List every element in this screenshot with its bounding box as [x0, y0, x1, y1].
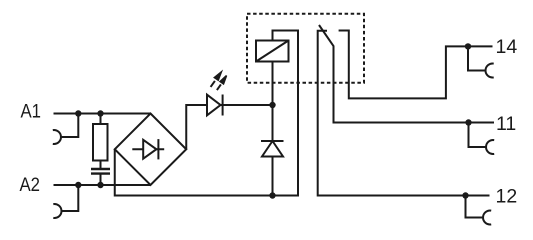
junction on 14 wire (clamp branch) [465, 43, 471, 49]
resistor R1 [93, 124, 108, 161]
clamp contact terminal 11 [486, 140, 494, 154]
LED V1 triangle [207, 95, 221, 116]
wire A2 horizontal to bridge bottom corner [54, 184, 151, 186]
dashed relay enclosure box [247, 14, 364, 83]
wire A1 junction down-left to clamp [61, 114, 78, 138]
wire A2 junction down-left to clamp [62, 185, 79, 211]
wire 14 junction down-right to clamp [468, 46, 486, 70]
clamp contact terminal A2 [53, 204, 61, 218]
LED light arrow 1 [211, 72, 222, 87]
svg-text:14: 14 [496, 36, 518, 58]
bridge rectifier G1 diamond [115, 114, 187, 186]
relay contact movable arm and common pole down to terminal 11 wire [319, 25, 494, 123]
relay contact fixed NO terminal with hook, down and over to terminal 14 wire [339, 31, 493, 99]
relay contact fixed NC terminal with hook, down to terminal 12 wire [318, 31, 490, 196]
wire capacitor bottom lead [100, 174, 102, 185]
svg-text:A1: A1 [21, 101, 42, 123]
wire resistor top lead [100, 114, 102, 125]
LED light arrow 2 [217, 76, 227, 91]
relay coil K1 [256, 41, 289, 62]
clamp contact terminal A1 [53, 130, 61, 144]
junction node: LED wire / coil bottom / freewheel diode top [269, 102, 275, 108]
wire DC-plus: bridge right corner up to LED wire [186, 105, 272, 149]
wire coil bottom lead down to node [272, 62, 274, 106]
capacitor C1 [91, 169, 110, 174]
freewheeling diode V2 cathode bar [261, 140, 284, 142]
clamp contact terminal 14 [486, 64, 494, 78]
junction node: freewheel diode bottom / DC-minus line [269, 192, 275, 198]
wire resistor bottom to capacitor [100, 161, 102, 170]
bridge rectifier internal diode axis [132, 148, 164, 150]
junction on 11 wire (clamp branch) [465, 119, 471, 125]
bridge rectifier internal diode triangle [143, 140, 156, 159]
svg-text:12: 12 [496, 186, 518, 208]
wire 11 junction down-right to clamp [469, 123, 487, 148]
wire freewheel diode branch [272, 105, 274, 196]
junction on A1 wire (clamp branch) [75, 110, 81, 116]
wire 12 junction down-right to clamp [466, 196, 484, 218]
svg-text:A2: A2 [20, 174, 41, 196]
junction on 12 wire (clamp branch) [462, 192, 468, 198]
wire DC-minus: bridge left corner down, right under bridge, up to coil top lead [115, 31, 298, 196]
freewheeling diode V2 triangle [262, 141, 283, 157]
wire A1 horizontal to bridge top corner [54, 113, 151, 115]
clamp contact terminal 12 [483, 211, 491, 225]
junction on A2 wire (clamp branch) [75, 182, 81, 188]
bridge rectifier internal diode cathode bar [157, 139, 159, 159]
svg-text:11: 11 [496, 113, 516, 135]
junction on A2 wire (capacitor branch) [97, 182, 103, 188]
junction on A1 wire (resistor branch) [97, 110, 103, 116]
LED V1 cathode bar [222, 95, 224, 116]
